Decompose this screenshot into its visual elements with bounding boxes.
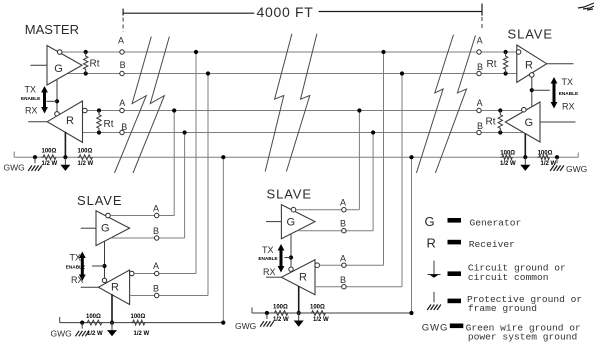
legend dash green wire ground	[450, 324, 464, 329]
junction slave1 ground drop	[110, 321, 114, 325]
receiver R (slave 2)	[281, 260, 315, 295]
legend symbol circuit ground	[428, 261, 441, 278]
svg-text:RX: RX	[562, 102, 575, 112]
resistor R7 100 ohm bias (slave 2)	[273, 311, 288, 316]
node B terminal (slave2 TX)	[342, 229, 346, 233]
junction Rt1 top on line 1	[84, 50, 88, 54]
node B terminal (slave1 TX)	[155, 236, 159, 240]
junction Rt4 top on line 3	[498, 108, 502, 112]
wire slave1 R A tap riser	[195, 52, 197, 274]
svg-text:GWG: GWG	[566, 164, 587, 174]
wire slave1 ground drop	[111, 294, 113, 322]
node A terminal (slave2 RX)	[342, 263, 346, 267]
dimension right witness dashed	[481, 17, 483, 30]
wire master R ground drop	[64, 132, 66, 158]
svg-text:A: A	[153, 204, 159, 214]
junction master enable tee	[55, 99, 59, 103]
junction Rt3 top on line 1	[504, 50, 508, 54]
ground protective ground (master)	[28, 157, 42, 171]
wire bus line 4 (RX B)	[83, 132, 524, 134]
junction slave2 protective ground tap	[265, 311, 269, 315]
cable break pair 2 bolt 1	[265, 34, 292, 172]
svg-text:A: A	[340, 198, 346, 208]
svg-text:1/2 W: 1/2 W	[78, 161, 94, 167]
arrow slave2 TX/RX direction	[278, 244, 285, 273]
svg-text:circuit common: circuit common	[468, 272, 549, 283]
svg-text:100Ω: 100Ω	[500, 150, 515, 156]
wire slave1 G output B	[111, 237, 185, 239]
wire slave1 G A tap riser	[173, 111, 175, 216]
svg-text:100Ω: 100Ω	[78, 149, 93, 155]
wire right slave G output stub	[540, 121, 576, 123]
svg-text:SLAVE: SLAVE	[77, 193, 122, 208]
svg-text:A: A	[153, 261, 159, 271]
cable break pair 1 bolt 2	[133, 37, 169, 174]
ground circuit ground (slave 1)	[107, 323, 117, 337]
wire slave1 R output stub	[81, 286, 99, 288]
wire common right end riser	[577, 153, 579, 158]
svg-text:100Ω: 100Ω	[273, 304, 288, 310]
svg-text:R: R	[66, 115, 74, 127]
cable break pair 3 bolt 1	[416, 35, 453, 173]
svg-text:frame ground: frame ground	[468, 303, 537, 314]
junction slave2 A tap on line 3	[357, 108, 361, 112]
wire slave2 R input B	[315, 286, 402, 288]
svg-text:Rt: Rt	[487, 59, 497, 70]
receiver R (slave 1)	[98, 270, 129, 305]
svg-text:RX: RX	[25, 106, 38, 116]
node B terminal (right slave TX)	[477, 130, 481, 134]
junction right slave enable tee	[530, 88, 534, 92]
svg-text:RX: RX	[71, 275, 84, 285]
wire bus line 2 (TX B)	[67, 73, 517, 75]
wire slave2 R input A	[320, 264, 384, 266]
cable break pair 1 bolt 1	[115, 37, 152, 174]
generator G (right slave)	[505, 102, 540, 142]
dimension left tick	[122, 9, 124, 16]
node A terminal (right slave TX)	[477, 108, 481, 112]
svg-text:100Ω: 100Ω	[310, 304, 325, 310]
dimension line left segment	[123, 12, 254, 14]
ground circuit ground (master)	[60, 157, 70, 171]
legend symbol protective ground	[427, 292, 441, 310]
svg-text:1/2 W: 1/2 W	[87, 331, 103, 337]
generator G (master)	[47, 46, 82, 86]
arrow slave1 TX/RX direction	[79, 252, 86, 282]
junction Rt2 top on line 3	[97, 108, 101, 112]
svg-text:GWG: GWG	[4, 163, 25, 173]
wire slave1 ground rail left riser	[59, 317, 61, 323]
wire slave1 enable tick to arrow	[92, 265, 105, 267]
svg-text:100Ω: 100Ω	[131, 314, 146, 320]
resistor Rt1 termination	[84, 52, 88, 74]
legend dash generator	[448, 218, 462, 223]
junction slave1 enable tee	[102, 264, 106, 268]
ground protective ground (right slave)	[550, 157, 564, 171]
junction slave2 B tap on line 4	[371, 130, 375, 134]
svg-text:ENABLE: ENABLE	[21, 96, 40, 101]
svg-text:TX: TX	[562, 77, 574, 87]
svg-text:GWG: GWG	[422, 322, 449, 333]
junction right slave protective ground tap	[555, 155, 559, 159]
resistor R8 100 ohm bias (slave 2)	[310, 311, 326, 316]
wire slave2 R A tap riser	[383, 52, 385, 265]
svg-text:R: R	[111, 282, 119, 294]
resistor R3 100 ohm bias (right slave)	[501, 155, 513, 160]
wire slave2 G A tap riser	[358, 111, 360, 210]
svg-text:B: B	[153, 284, 159, 294]
svg-text:1/2 W: 1/2 W	[313, 317, 329, 323]
wire master enable vertical	[56, 79, 58, 111]
svg-text:B: B	[121, 122, 127, 132]
svg-text:MASTER: MASTER	[25, 22, 79, 37]
junction Rt3 bottom on line 2	[504, 71, 508, 75]
wire bus line 3 (RX A)	[84, 110, 524, 112]
svg-text:R: R	[525, 60, 533, 72]
svg-text:1/2 W: 1/2 W	[134, 331, 150, 337]
wire right slave enable tick to arrow	[532, 89, 550, 91]
wire slave2 common tap riser	[411, 157, 413, 313]
junction master ground drop on common	[63, 155, 67, 159]
svg-text:A: A	[477, 98, 483, 108]
node A terminal (right slave RX)	[477, 50, 481, 54]
resistor R1 100 ohm bias (master)	[42, 155, 57, 160]
junction Rt4 bottom on line 4	[498, 130, 502, 134]
receiver R (master)	[47, 101, 82, 142]
svg-text:Rt: Rt	[90, 59, 100, 70]
pin slave1 R input A	[130, 271, 135, 276]
svg-text:TX: TX	[262, 245, 274, 255]
junction master protective ground tap	[33, 155, 37, 159]
svg-text:B: B	[340, 219, 346, 229]
svg-text:ENABLE: ENABLE	[559, 91, 578, 96]
junction slave2 ground drop	[297, 311, 301, 315]
artifact scribble top right corner	[578, 3, 594, 10]
wire slave2 R output stub	[266, 276, 281, 278]
resistor R6 100 ohm bias (slave 1)	[131, 320, 145, 325]
resistor R5 100 ohm bias (slave 1)	[86, 320, 102, 325]
node A terminal (slave1 RX)	[155, 271, 159, 275]
junction slave2 B tap on line 2	[400, 71, 404, 75]
dimension line right segment	[319, 11, 482, 13]
cable break pair 2 bolt 2	[286, 34, 317, 172]
svg-text:1/2 W: 1/2 W	[500, 161, 516, 167]
resistor Rt2 termination	[97, 111, 101, 133]
svg-text:4000 FT: 4000 FT	[257, 4, 314, 20]
svg-text:Rt: Rt	[104, 119, 114, 130]
svg-text:B: B	[153, 226, 159, 236]
legend dash protective ground	[448, 299, 462, 304]
svg-text:A: A	[118, 36, 124, 46]
svg-text:TX: TX	[70, 253, 82, 263]
svg-text:Generator: Generator	[470, 218, 522, 229]
wire slave2 enable tick to arrow	[284, 257, 291, 259]
svg-text:G: G	[525, 117, 534, 129]
junction slave1 A tap on line 1	[194, 50, 198, 54]
wire right slave R output stub	[547, 63, 574, 65]
svg-text:RX: RX	[263, 267, 276, 277]
wire slave1 G B tap riser	[184, 133, 186, 239]
wire slave1 G input stub	[81, 227, 96, 229]
svg-text:SLAVE: SLAVE	[267, 187, 312, 202]
svg-text:B: B	[477, 62, 483, 72]
pin master R input A	[83, 108, 88, 113]
junction slave1 B tap on line 4	[183, 130, 187, 134]
wire slave2 enable vertical	[290, 234, 292, 266]
wire master enable tick to arrow	[46, 100, 57, 102]
wire slave2 R B tap riser	[401, 74, 403, 287]
dimension right tick	[481, 4, 483, 16]
pin master R enable (active low)	[55, 112, 60, 117]
resistor R4 100 ohm bias (right slave)	[538, 155, 550, 160]
ground protective ground (slave 1)	[75, 323, 89, 337]
svg-text:GWG: GWG	[235, 321, 256, 331]
arrow master TX/RX direction	[41, 86, 48, 114]
node B terminal (right slave RX)	[477, 71, 481, 75]
junction slave2 enable tee	[289, 255, 293, 259]
ground circuit ground (slave 2)	[294, 313, 304, 327]
wire slave1 R B tap riser	[207, 74, 209, 296]
svg-text:ENABLE: ENABLE	[66, 264, 85, 269]
generator G (slave 1)	[96, 211, 130, 246]
junction slave2 rail corner	[409, 311, 413, 315]
node A terminal (master RX pair)	[120, 108, 124, 112]
junction slave2 A tap on line 1	[381, 50, 385, 54]
node B terminal (slave1 RX)	[155, 293, 159, 297]
pin slave1 R enable (active low)	[102, 278, 106, 282]
wire slave2 G B tap riser	[372, 133, 374, 231]
svg-text:1/2 W: 1/2 W	[273, 317, 289, 323]
wire slave1 G output A	[110, 215, 174, 217]
svg-text:B: B	[120, 60, 126, 70]
pin slave2 R enable (active low)	[289, 267, 293, 271]
svg-text:Receiver: Receiver	[469, 239, 515, 250]
pin slave1 G inverting output	[106, 213, 111, 218]
wire slave1 common tap riser	[222, 157, 224, 322]
wire master R output stub	[28, 121, 47, 123]
pin inverting output of master G	[57, 50, 62, 55]
junction slave1 A tap on line 3	[172, 108, 176, 112]
svg-text:A: A	[340, 254, 346, 264]
svg-text:ENABLE: ENABLE	[258, 256, 277, 261]
pin right slave R enable (active low)	[530, 73, 535, 78]
pin right slave R input A	[516, 50, 521, 55]
legend dash circuit ground	[448, 271, 462, 276]
dimension left witness dashed	[122, 18, 124, 33]
wire slave1 R input B	[130, 295, 208, 297]
svg-text:Rt: Rt	[486, 117, 496, 128]
wire slave1 enable vertical	[104, 241, 106, 278]
resistor Rt3 termination	[503, 52, 507, 74]
ground circuit ground (right slave)	[520, 157, 530, 171]
node B terminal (master TX pair)	[120, 71, 124, 75]
svg-text:G: G	[54, 63, 63, 75]
node B terminal (master RX pair)	[120, 130, 124, 134]
wire slave1 ground rail	[60, 322, 224, 324]
svg-text:100Ω: 100Ω	[42, 149, 57, 155]
wire slave1 R input A	[134, 273, 196, 275]
svg-text:A: A	[119, 98, 125, 108]
node A terminal (slave1 TX)	[155, 213, 159, 217]
wire right slave enable vertical	[531, 77, 533, 106]
generator G (slave 2)	[281, 205, 315, 239]
wire master G input stub	[30, 64, 47, 66]
junction slave1 rail corner	[221, 321, 225, 325]
svg-text:1/2 W: 1/2 W	[42, 161, 58, 167]
svg-text:R: R	[299, 272, 307, 284]
svg-text:power system ground: power system ground	[468, 332, 577, 343]
wire slave2 ground rail left riser	[251, 308, 253, 314]
wire bus line 5 signal common	[14, 156, 578, 158]
svg-text:B: B	[340, 275, 346, 285]
ground protective ground (slave 2)	[260, 313, 274, 327]
arrow right slave TX/RX direction	[551, 77, 558, 109]
wire right slave G ground drop	[524, 134, 526, 158]
node B terminal (slave2 RX)	[342, 285, 346, 289]
junction Rt2 bottom on line 4	[97, 130, 101, 134]
svg-text:TX: TX	[25, 85, 37, 95]
node A terminal (slave2 TX)	[342, 208, 346, 212]
resistor R2 100 ohm bias (master)	[78, 155, 93, 160]
wire common left end riser	[13, 152, 15, 158]
wire slave2 ground drop	[298, 286, 300, 313]
wire slave2 G input stub	[266, 221, 281, 223]
wire slave2 ground rail	[252, 312, 412, 314]
svg-text:100Ω: 100Ω	[538, 150, 553, 156]
svg-text:GWG: GWG	[51, 329, 72, 339]
svg-text:SLAVE: SLAVE	[508, 26, 553, 41]
cable break pair 3 bolt 2	[435, 35, 475, 173]
pin slave2 R input A	[315, 263, 320, 268]
wire slave2 G output B	[297, 230, 373, 232]
receiver R (right slave)	[517, 45, 547, 82]
svg-text:A: A	[477, 36, 483, 46]
junction right slave ground drop on common	[523, 155, 527, 159]
pin slave2 G inverting output	[291, 207, 296, 212]
svg-text:G: G	[287, 217, 296, 229]
svg-text:G: G	[425, 214, 435, 229]
junction slave1 B tap on line 2	[206, 71, 210, 75]
legend dash receiver	[448, 240, 462, 245]
wire slave2 G output A	[296, 209, 360, 211]
svg-text:R: R	[427, 236, 436, 251]
wire bus line 1 (TX A)	[62, 51, 517, 53]
svg-text:B: B	[477, 121, 483, 131]
resistor Rt4 termination	[498, 111, 502, 133]
junction Rt1 bottom on line 2	[84, 71, 88, 75]
junction slave2 common tap on line 5	[409, 155, 413, 159]
junction slave1 protective ground tap	[80, 321, 84, 325]
svg-text:100Ω: 100Ω	[86, 314, 101, 320]
svg-text:G: G	[101, 223, 110, 235]
node A terminal (master TX pair)	[120, 50, 124, 54]
pin right slave G inverting output	[522, 107, 527, 112]
junction slave1 common tap on line 5	[221, 155, 225, 159]
